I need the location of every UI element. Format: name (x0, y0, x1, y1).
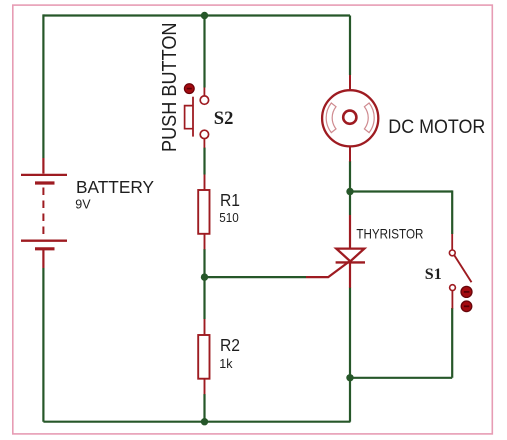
svg-text:R1: R1 (220, 190, 240, 210)
resistor R1 top lead (204, 175, 206, 191)
node B junction (346, 188, 353, 195)
svg-text:S2: S2 (214, 109, 234, 129)
wire left vertical upper (42, 14, 44, 158)
svg-text:DC MOTOR: DC MOTOR (388, 117, 485, 138)
DC motor M1 left brush arc (326, 103, 336, 133)
svg-text:THYRISTOR: THYRISTOR (356, 226, 423, 242)
thyristor U1 triangle (336, 249, 364, 262)
switch S1 bottom lead (451, 291, 453, 309)
push button S2 plunger bracket (185, 106, 193, 129)
switch S1 toggle dot upper (461, 286, 472, 297)
wire top rail (43, 14, 350, 16)
wire bottom rail (43, 421, 350, 423)
wire motor top (349, 16, 351, 76)
wire motor bottom to node B (349, 161, 351, 215)
push button S2 moving bar (192, 97, 194, 137)
node junction top (201, 12, 208, 19)
wire R1 to node A (203, 249, 205, 277)
node junction bottom (201, 418, 208, 425)
wire S1 upper lead column (451, 190, 453, 234)
DC motor M1 bottom lead (349, 146, 351, 162)
thyristor U1 cathode lead (349, 262, 351, 287)
thyristor U1 gate wire (306, 262, 349, 277)
svg-text:510: 510 (219, 211, 239, 225)
switch S1 toggle dot lower (461, 301, 472, 312)
DC motor M1 hub (343, 111, 356, 124)
switch S1 lever (454, 255, 471, 282)
svg-text:S1: S1 (425, 266, 442, 283)
resistor R2 body (198, 335, 209, 379)
svg-text:PUSH BUTTON: PUSH BUTTON (159, 23, 181, 153)
DC motor M1 body (322, 90, 378, 146)
battery cell 1 long plate (21, 174, 67, 176)
battery cell 2 short plate (35, 247, 55, 250)
svg-text:1k: 1k (219, 357, 233, 371)
thyristor U1 cathode bar (336, 261, 365, 263)
DC motor M1 top lead (349, 75, 351, 91)
resistor R2 bottom lead (204, 379, 206, 395)
wire S1 branch bottom (350, 377, 452, 379)
switch S1 top terminal (449, 250, 455, 256)
thyristor U1 anode lead (349, 215, 351, 248)
push button S2 top terminal (200, 96, 208, 104)
switch S1 top lead (451, 234, 453, 250)
battery BAT1 leads (42, 158, 44, 268)
wire gate horizontal (205, 276, 307, 278)
switch S1 bottom terminal (450, 285, 456, 291)
node C junction (346, 374, 353, 381)
battery cell 2 long plate (21, 240, 67, 242)
wire push-button column (203, 16, 205, 88)
push button S2 top lead (203, 88, 205, 96)
svg-text:9V: 9V (75, 197, 91, 211)
push button S2 red indicator (184, 84, 194, 94)
wire R2 to bottom rail (203, 394, 205, 422)
push button S2 bottom lead (203, 139, 205, 148)
svg-text:BATTERY: BATTERY (76, 177, 154, 197)
node A junction (201, 273, 208, 280)
DC motor M1 right brush arc (364, 103, 374, 133)
resistor R1 body (198, 190, 209, 234)
battery dashed link (42, 188, 44, 239)
resistor R1 bottom lead (204, 234, 206, 250)
wire node A to R2 (203, 277, 205, 319)
svg-text:R2: R2 (220, 335, 240, 355)
resistor R2 top lead (204, 319, 206, 335)
wire node C to bottom rail (349, 378, 351, 422)
wire thyristor cathode to node C (349, 288, 351, 378)
wire left vertical lower (42, 268, 44, 422)
wire S2 to R1 (203, 148, 205, 175)
wire S1 lower column (451, 308, 453, 378)
push button S2 bottom terminal (200, 130, 208, 138)
wire node B to S1 branch (350, 190, 452, 192)
battery cell 1 short plate (35, 181, 55, 184)
